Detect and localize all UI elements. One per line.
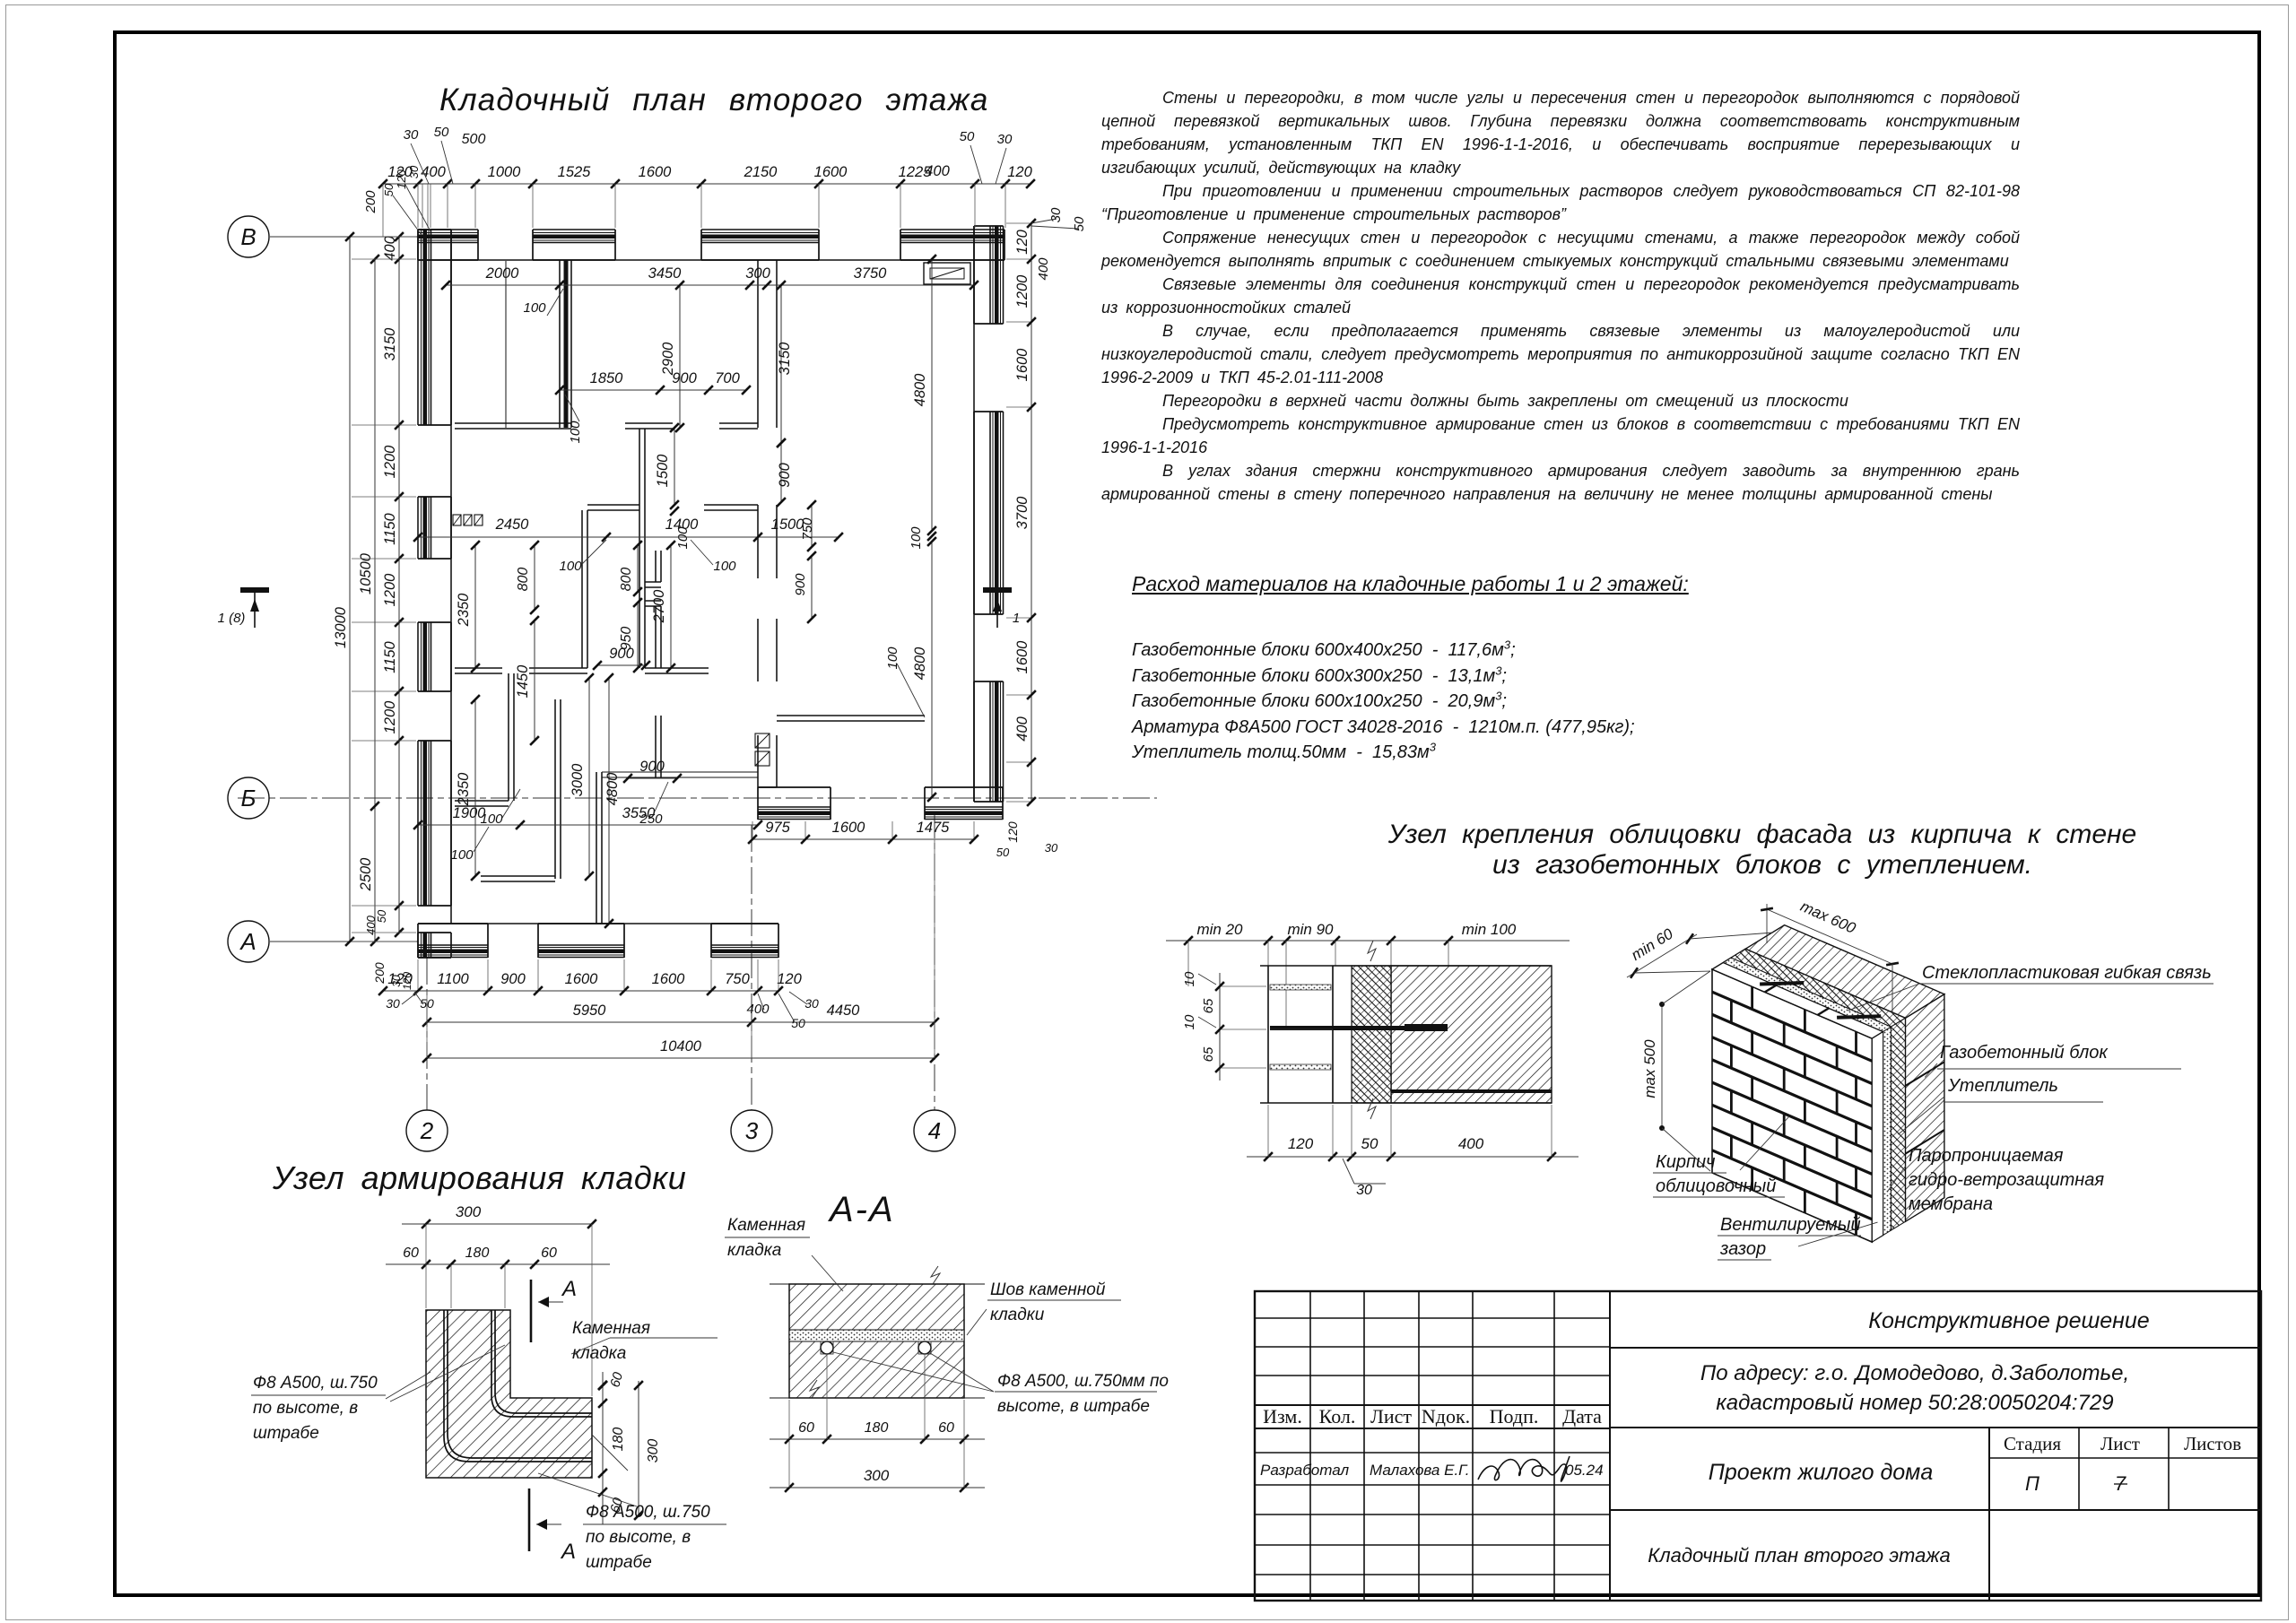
svg-text:750: 750 <box>800 517 815 541</box>
svg-text:Лист: Лист <box>1370 1405 1412 1428</box>
svg-text:Каменная: Каменная <box>572 1319 650 1338</box>
stairs landing line y861 <box>602 771 758 773</box>
svg-text:1600: 1600 <box>814 164 848 180</box>
bottom wall inner face line continuous <box>418 923 778 924</box>
axon top brick pattern joints <box>1765 985 1776 993</box>
interior dim 900 above y745 <box>597 664 646 666</box>
svg-text:1900: 1900 <box>453 805 487 821</box>
bottom wall of right wing along axis Б <box>758 786 831 788</box>
A-A dim chain 60/180/60 <box>770 1438 985 1440</box>
extension lines bottom wall <box>417 959 419 989</box>
svg-text:750: 750 <box>725 971 750 987</box>
svg-text:min 60: min 60 <box>1628 924 1676 963</box>
partition y745 lower left <box>455 667 502 669</box>
interior dims 3000/4800 rotated <box>588 678 590 876</box>
detail1 leader 30 <box>1343 1159 1354 1184</box>
svg-text:штрабе: штрабе <box>586 1553 652 1572</box>
extension lines right wall <box>1006 222 1030 224</box>
svg-text:800: 800 <box>619 568 634 592</box>
svg-text:975: 975 <box>765 820 790 836</box>
svg-text:max 500: max 500 <box>1641 1039 1658 1098</box>
detail1 gas block bottom edge thick <box>1391 1089 1552 1093</box>
detail1 top boundary line <box>1260 965 1552 967</box>
svg-text:А: А <box>560 1540 576 1564</box>
svg-text:100: 100 <box>568 421 583 444</box>
axon leader gas block <box>1925 1063 1937 1077</box>
interior dim 2900 <box>679 285 681 428</box>
axon top insulation strip <box>1731 949 1905 1027</box>
axis circle 2 <box>406 1110 448 1151</box>
right exterior wall piers <box>973 226 975 324</box>
svg-text:П: П <box>2025 1472 2039 1495</box>
A-A break marks <box>931 1266 940 1284</box>
svg-text:100: 100 <box>909 526 924 550</box>
interior dim 1450 <box>534 621 535 741</box>
axon leader vent gap <box>1798 1222 1878 1246</box>
detail1 bottom dim chain 120/50/400 <box>1247 1156 1578 1158</box>
svg-text:1200: 1200 <box>1014 274 1031 308</box>
svg-text:1600: 1600 <box>639 164 673 180</box>
interior dim 2350 lower <box>474 699 476 876</box>
svg-text:высоте, в штрабе: высоте, в штрабе <box>997 1397 1150 1416</box>
A-A leader mortar joint <box>967 1309 987 1335</box>
corner node rebar outer <box>444 1310 592 1462</box>
partition stub y745-751 right of corridor <box>645 667 709 669</box>
svg-text:Стеклопластиковая гибкая связь: Стеклопластиковая гибкая связь <box>1922 963 2212 983</box>
svg-text:120: 120 <box>1014 229 1031 254</box>
svg-text:30: 30 <box>1048 207 1064 222</box>
chain y936 right wing <box>752 838 974 840</box>
axon gas block right <box>1906 994 1944 1222</box>
corner node masonry L-shape hatched <box>426 1310 592 1478</box>
A-A leader masonry <box>812 1255 843 1291</box>
extension lines left wall <box>352 236 416 238</box>
svg-text:900: 900 <box>793 573 808 596</box>
svg-text:1450: 1450 <box>515 664 531 699</box>
interior dim 2700 <box>670 545 672 668</box>
svg-text:мембрана: мембрана <box>1909 1194 1993 1214</box>
svg-text:1525: 1525 <box>558 164 592 180</box>
svg-text:2: 2 <box>420 1117 434 1144</box>
svg-text:100: 100 <box>885 647 900 670</box>
svg-text:3: 3 <box>745 1117 759 1144</box>
title block row lines left section <box>1255 1317 1610 1319</box>
svg-text:10: 10 <box>1182 1014 1197 1029</box>
svg-text:10400: 10400 <box>660 1038 702 1055</box>
grid axis A line <box>270 941 418 942</box>
svg-text:кадастровый номер 50:28:005020: кадастровый номер 50:28:0050204:729 <box>1716 1391 2113 1415</box>
extension lines above top wall <box>417 184 419 228</box>
svg-text:Малахова Е.Г.: Малахова Е.Г. <box>1370 1462 1469 1479</box>
svg-text:штрабе: штрабе <box>253 1424 319 1443</box>
axon dim max600 <box>1766 904 1768 943</box>
left pier chain <box>398 237 400 933</box>
svg-text:1600: 1600 <box>565 971 599 987</box>
materials consumption block <box>1132 572 1689 766</box>
svg-text:1000: 1000 <box>488 164 522 180</box>
svg-text:50: 50 <box>960 129 975 144</box>
svg-text:Изм.: Изм. <box>1263 1405 1302 1428</box>
svg-text:кладка: кладка <box>572 1344 626 1363</box>
svg-text:65: 65 <box>1201 1046 1216 1062</box>
interior dim 1500 corridor <box>674 428 675 505</box>
svg-text:50: 50 <box>791 1016 805 1030</box>
svg-text:120: 120 <box>1005 821 1020 843</box>
axis 2 line <box>426 958 428 1110</box>
extension lines right wing chain <box>752 821 753 838</box>
svg-text:400: 400 <box>1014 716 1031 741</box>
axis 4 line <box>934 811 935 1110</box>
axon top face <box>1712 949 1906 1038</box>
signature scribble <box>1478 1456 1570 1481</box>
svg-text:Паропроницаемая: Паропроницаемая <box>1909 1146 2064 1166</box>
svg-text:65: 65 <box>1201 998 1216 1013</box>
partition y893 lower left <box>455 800 509 802</box>
detail1 extension lines top <box>1187 941 1189 986</box>
left dimension chain 13000 <box>349 237 351 942</box>
svg-text:1150: 1150 <box>382 512 398 544</box>
bottom exterior wall piers along axis A <box>418 923 488 924</box>
svg-text:30: 30 <box>804 996 819 1011</box>
corner node top dim 300 <box>402 1223 592 1225</box>
left dimension chain 10500/2500 <box>374 259 376 942</box>
svg-text:700: 700 <box>715 370 740 386</box>
left wall inner face line continuous <box>450 230 452 924</box>
bottom chain 10400 <box>427 1057 935 1059</box>
svg-text:120: 120 <box>777 971 802 987</box>
bottom dimension chain piers <box>383 990 778 992</box>
svg-text:1100: 1100 <box>437 971 469 987</box>
svg-text:1600: 1600 <box>1014 640 1031 674</box>
svg-text:100: 100 <box>559 559 582 574</box>
svg-text:400: 400 <box>364 915 378 934</box>
axon brick front face outline <box>1712 969 1872 1242</box>
detail1 air gap <box>1333 966 1352 1103</box>
A-A masonry rect hatched <box>789 1284 964 1398</box>
vent blocks symbol left <box>453 515 461 525</box>
svg-text:1850: 1850 <box>590 370 624 386</box>
corner node rebar inner <box>491 1310 592 1417</box>
A-A top boundary lines <box>770 1283 985 1285</box>
svg-text:Кладочный план второго этажа: Кладочный план второго этажа <box>1648 1544 1951 1567</box>
A-A leader rebar <box>833 1352 994 1392</box>
svg-text:400: 400 <box>1036 257 1051 281</box>
A-A label <box>830 1190 895 1230</box>
partition x567 lower left <box>508 673 509 801</box>
right wing dim 100 leader <box>897 664 925 717</box>
svg-text:180: 180 <box>865 1420 889 1436</box>
svg-text:2900: 2900 <box>660 342 676 377</box>
svg-text:120: 120 <box>1288 1135 1314 1152</box>
reinforcement node title <box>273 1159 686 1197</box>
svg-text:1: 1 <box>1013 611 1020 626</box>
svg-text:180: 180 <box>465 1245 490 1261</box>
svg-text:Ф8 А500, ш.750мм по: Ф8 А500, ш.750мм по <box>997 1372 1169 1391</box>
svg-text:4: 4 <box>928 1117 941 1144</box>
corridor partition x649 <box>581 510 583 668</box>
title block column lines left section <box>1309 1291 1311 1601</box>
interior load wall on axis 3 <box>757 260 759 428</box>
interior chain y599 <box>418 536 839 538</box>
axon leader glass tie <box>1848 984 1920 1011</box>
axon brick courses <box>1712 992 1872 1061</box>
svg-text:1200: 1200 <box>382 700 398 734</box>
svg-text:Ф8 А500, ш.750: Ф8 А500, ш.750 <box>253 1374 378 1393</box>
detail1 top dim line min20/min90/min100 <box>1166 940 1570 942</box>
corner node section A mark top <box>530 1280 533 1342</box>
svg-text:30: 30 <box>404 127 419 143</box>
svg-text:3550: 3550 <box>622 805 657 821</box>
svg-text:100: 100 <box>450 847 474 863</box>
svg-text:2700: 2700 <box>651 589 667 624</box>
svg-text:min 20: min 20 <box>1196 921 1243 938</box>
right wing dims 750/900 <box>811 505 813 547</box>
svg-text:Лист: Лист <box>2100 1433 2140 1454</box>
detail1 mortar joint 2 <box>1270 1064 1331 1070</box>
svg-text:100: 100 <box>523 300 546 316</box>
svg-text:1500: 1500 <box>655 454 671 488</box>
chain y920 1900/3550 <box>418 824 758 826</box>
svg-text:400: 400 <box>925 163 950 179</box>
section mark 1(8) left <box>240 587 269 593</box>
svg-text:по высоте, в: по высоте, в <box>253 1399 358 1418</box>
svg-text:А: А <box>561 1277 577 1301</box>
top wall inner face line continuous <box>418 259 1004 261</box>
svg-text:3750: 3750 <box>854 265 888 282</box>
corner node section A mark bottom <box>528 1488 531 1551</box>
svg-text:50: 50 <box>382 183 396 196</box>
svg-text:Каменная: Каменная <box>727 1216 805 1235</box>
svg-text:400: 400 <box>382 235 398 260</box>
svg-text:Утеплитель: Утеплитель <box>1947 1076 2058 1096</box>
corner node leader masonry label <box>571 1338 610 1354</box>
svg-text:10: 10 <box>1182 971 1197 986</box>
axon gas block top <box>1745 925 1944 1019</box>
detail1 bottom boundary line <box>1260 1102 1552 1104</box>
svg-text:120: 120 <box>387 971 413 987</box>
svg-text:Стадия: Стадия <box>2004 1433 2061 1454</box>
svg-text:зазор: зазор <box>1719 1239 1766 1259</box>
svg-text:50: 50 <box>434 125 449 140</box>
A-A dim 300 <box>770 1487 985 1488</box>
svg-text:1150: 1150 <box>382 640 398 673</box>
svg-text:Газобетонный блок: Газобетонный блок <box>1940 1043 2109 1063</box>
svg-text:900: 900 <box>639 759 665 775</box>
svg-text:200: 200 <box>372 962 387 985</box>
interior dim 800 left <box>534 545 535 610</box>
svg-text:3450: 3450 <box>648 265 683 282</box>
top small dims 30 50 500 <box>411 143 429 184</box>
svg-text:Кол.: Кол. <box>1319 1405 1356 1428</box>
svg-text:1200: 1200 <box>382 445 398 479</box>
right wing partition y798 <box>777 715 925 716</box>
detail1 break squiggle bottom <box>1368 1098 1376 1119</box>
top right small dims 50 30 <box>970 145 982 184</box>
interior partition y472 <box>455 422 571 424</box>
corner node right dim chain 60/180/60/300 <box>602 1372 604 1524</box>
svg-text:2150: 2150 <box>744 164 778 180</box>
grid axis Б dash-dot line <box>238 797 1157 799</box>
section mark 1 right <box>983 587 1012 593</box>
svg-text:3150: 3150 <box>382 327 398 361</box>
svg-text:3150: 3150 <box>777 342 793 376</box>
svg-text:400: 400 <box>421 164 446 180</box>
interior dim chain y435 <box>560 389 746 391</box>
svg-text:800: 800 <box>516 568 531 592</box>
svg-text:60: 60 <box>607 1370 626 1389</box>
axis circle A <box>228 921 269 962</box>
svg-text:Разработал: Разработал <box>1260 1462 1349 1479</box>
svg-text:Nдок.: Nдок. <box>1422 1405 1470 1428</box>
axon brick vertical joints <box>1751 986 1753 1009</box>
svg-text:30: 30 <box>1045 841 1058 855</box>
axon top membrane strip dotted <box>1723 958 1891 1031</box>
svg-text:1600: 1600 <box>1014 348 1031 382</box>
svg-text:облицовочный: облицовочный <box>1656 1176 1776 1196</box>
svg-text:А: А <box>239 928 256 955</box>
svg-text:1600: 1600 <box>832 820 866 836</box>
A-A rebar circles <box>821 1341 833 1354</box>
svg-text:3000: 3000 <box>570 763 586 797</box>
title block right section lines <box>1610 1347 2261 1349</box>
svg-text:гидро-ветрозащитная: гидро-ветрозащитная <box>1909 1170 2104 1190</box>
svg-text:Конструктивное решение: Конструктивное решение <box>1868 1308 2149 1333</box>
svg-text:200: 200 <box>363 190 378 214</box>
detail1 gas block hatched <box>1391 966 1552 1103</box>
svg-text:100: 100 <box>713 559 736 574</box>
partition y977 <box>481 875 555 877</box>
svg-text:1475: 1475 <box>917 820 951 836</box>
detail1 flexible tie <box>1270 1026 1405 1030</box>
interior dim 900 below <box>780 443 782 502</box>
axon dim min60 <box>1627 934 1697 977</box>
closet partition line x564 <box>505 261 507 428</box>
svg-text:500: 500 <box>462 132 486 147</box>
svg-text:Ф8 А500, ш.750: Ф8 А500, ш.750 <box>586 1503 710 1522</box>
leader 100 at x628 <box>547 289 563 316</box>
svg-text:400: 400 <box>1458 1135 1484 1152</box>
corner node chain 60/180/60 <box>386 1263 610 1265</box>
svg-text:05.24: 05.24 <box>1565 1462 1604 1479</box>
A-A mortar joint band <box>789 1330 964 1341</box>
svg-text:60: 60 <box>541 1245 557 1261</box>
interior dim 2350 upper <box>474 545 476 668</box>
svg-text:min 100: min 100 <box>1462 921 1517 938</box>
svg-text:min 90: min 90 <box>1287 921 1334 938</box>
interior wall x624 <box>559 260 561 428</box>
left exterior wall piers along axis 2 <box>417 230 419 425</box>
svg-text:5950: 5950 <box>573 1002 607 1019</box>
svg-text:900: 900 <box>500 971 526 987</box>
svg-text:1600: 1600 <box>652 971 686 987</box>
svg-text:300: 300 <box>646 1439 661 1463</box>
svg-text:2500: 2500 <box>358 857 374 892</box>
svg-text:300: 300 <box>456 1203 482 1220</box>
svg-text:30: 30 <box>407 165 421 178</box>
axis 3 line <box>751 825 752 1110</box>
svg-text:50: 50 <box>996 846 1010 859</box>
svg-text:30: 30 <box>997 132 1013 147</box>
svg-text:60: 60 <box>403 1245 419 1261</box>
right dimension chain <box>1031 223 1032 802</box>
svg-text:120: 120 <box>1007 164 1032 180</box>
svg-text:60: 60 <box>798 1420 814 1436</box>
detail1 tie joint line <box>1270 1028 1333 1030</box>
svg-text:4800: 4800 <box>912 373 928 407</box>
svg-text:60: 60 <box>938 1420 954 1436</box>
main plan title <box>439 82 989 118</box>
corner node leader rebar bottom <box>592 1435 628 1471</box>
interior dim 3150 right of wall x845 <box>780 285 782 443</box>
svg-text:кладка: кладка <box>727 1241 781 1260</box>
svg-text:2350: 2350 <box>456 772 472 807</box>
svg-text:По адресу: г.о. Домодедово, д.: По адресу: г.о. Домодедово, д.Заболотье, <box>1700 1361 2129 1385</box>
partition x665 stairs <box>596 772 597 924</box>
svg-text:Проект жилого дома: Проект жилого дома <box>1709 1460 1934 1485</box>
axis B wall piers <box>418 229 478 230</box>
general notes text block <box>1101 86 2020 506</box>
svg-text:50: 50 <box>1072 216 1087 231</box>
corner node leader rebar label left <box>386 1372 430 1399</box>
svg-text:4800: 4800 <box>604 772 621 806</box>
axis circle Б <box>228 777 269 819</box>
partition stubs x731 corridor <box>655 551 657 582</box>
svg-text:300: 300 <box>864 1467 890 1484</box>
svg-text:1 (8): 1 (8) <box>218 611 246 626</box>
detail1 break squiggle top <box>1368 941 1376 961</box>
partition y563 <box>587 504 639 506</box>
detail1 left dim chain <box>1219 973 1221 1081</box>
facade node title <box>1386 820 2139 881</box>
svg-text:кладки: кладки <box>990 1306 1045 1324</box>
bottom chain 5950/4450 <box>427 1021 935 1023</box>
interior dim 800/950 <box>637 545 639 592</box>
interior dim 100 leader left <box>502 789 520 818</box>
svg-text:4800: 4800 <box>912 647 928 681</box>
detail1 mortar joint 1 <box>1270 985 1331 990</box>
axon leader membrane <box>1887 1166 1906 1192</box>
right wall inner face line continuous <box>973 226 975 802</box>
svg-text:900: 900 <box>777 462 793 487</box>
svg-text:1200: 1200 <box>382 573 398 607</box>
svg-text:Б: Б <box>241 785 257 811</box>
svg-text:2450: 2450 <box>495 516 530 533</box>
axis circle 4 <box>914 1110 955 1151</box>
axis4 interior dim 4800 upper <box>931 259 933 531</box>
svg-text:180: 180 <box>611 1428 626 1452</box>
partition x619 lower <box>554 699 556 879</box>
partition caps y649/y670 <box>645 581 661 583</box>
detail1 insulation crosshatch <box>1352 966 1391 1103</box>
title block outer frame <box>1255 1291 2261 1601</box>
svg-text:4450: 4450 <box>827 1002 861 1019</box>
interior dim 900 small chain y873 <box>628 777 677 779</box>
svg-text:Листов: Листов <box>2184 1433 2241 1454</box>
svg-text:50: 50 <box>1361 1135 1378 1152</box>
svg-text:900: 900 <box>609 646 634 662</box>
detail1 brick leaf <box>1267 966 1269 1103</box>
vent blocks symbol axis3 <box>755 733 770 748</box>
svg-text:Вентилируемый: Вентилируемый <box>1720 1215 1861 1235</box>
grid axis B line <box>270 236 418 238</box>
axon leader brick <box>1740 1116 1789 1170</box>
svg-text:2350: 2350 <box>456 593 472 628</box>
svg-text:1400: 1400 <box>665 516 700 533</box>
axon dim max500 <box>1661 1004 1663 1128</box>
svg-text:13000: 13000 <box>333 606 349 648</box>
small partition x731 near 900/250 <box>655 716 657 778</box>
svg-text:max 600: max 600 <box>1798 898 1859 937</box>
